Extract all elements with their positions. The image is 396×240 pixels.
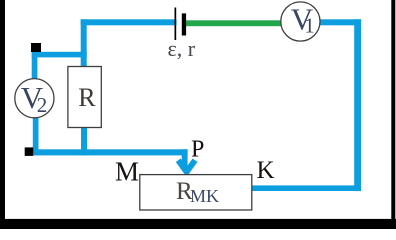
svg-text:1: 1 [304,14,315,38]
voltmeter V2 circle [15,79,54,118]
svg-text:P: P [191,136,204,162]
svg-text:ε, r: ε, r [168,36,196,61]
wire: top-left horizontal (node to battery) [81,19,177,25]
border: left black bar [0,0,5,229]
wire: right vertical [354,19,361,191]
svg-text:M: M [115,157,139,187]
node square (bottom, left end of bottom wire) [25,147,34,156]
svg-text:MK: MK [190,186,219,206]
wire: bottom horizontal (to slider arrow) [33,149,188,155]
battery cell: thin long plate [175,8,177,41]
svg-text:K: K [257,157,275,184]
svg-text:R: R [78,83,96,112]
border: right black bar [391,0,395,229]
battery cell: thick short plate [182,13,186,35]
resistor R box [68,67,101,128]
wire: horizontal connector (V2 branch to left vertical wire) [32,52,87,58]
arrowhead P (slider contact) [178,160,195,172]
wire: green (battery to V1) [185,20,282,26]
wire: arrow shaft P [182,149,188,169]
wire: V2 bottom stub [33,117,39,156]
wire: R bottom stub [81,126,87,155]
voltmeter V1 circle [281,2,320,41]
wire: top-right horizontal (V1 to right vertical) [319,19,362,25]
wire: V2 top stub [32,52,38,81]
svg-text:2: 2 [37,93,48,117]
rheostat RMK box [140,175,252,210]
border: bottom black bar [0,219,396,229]
wire: bottom-right horizontal (RMK to right vertical) [251,185,361,191]
node square (top, near V2 top) [31,43,41,52]
wire: left vertical (top wire down to resistor R) [81,19,87,68]
